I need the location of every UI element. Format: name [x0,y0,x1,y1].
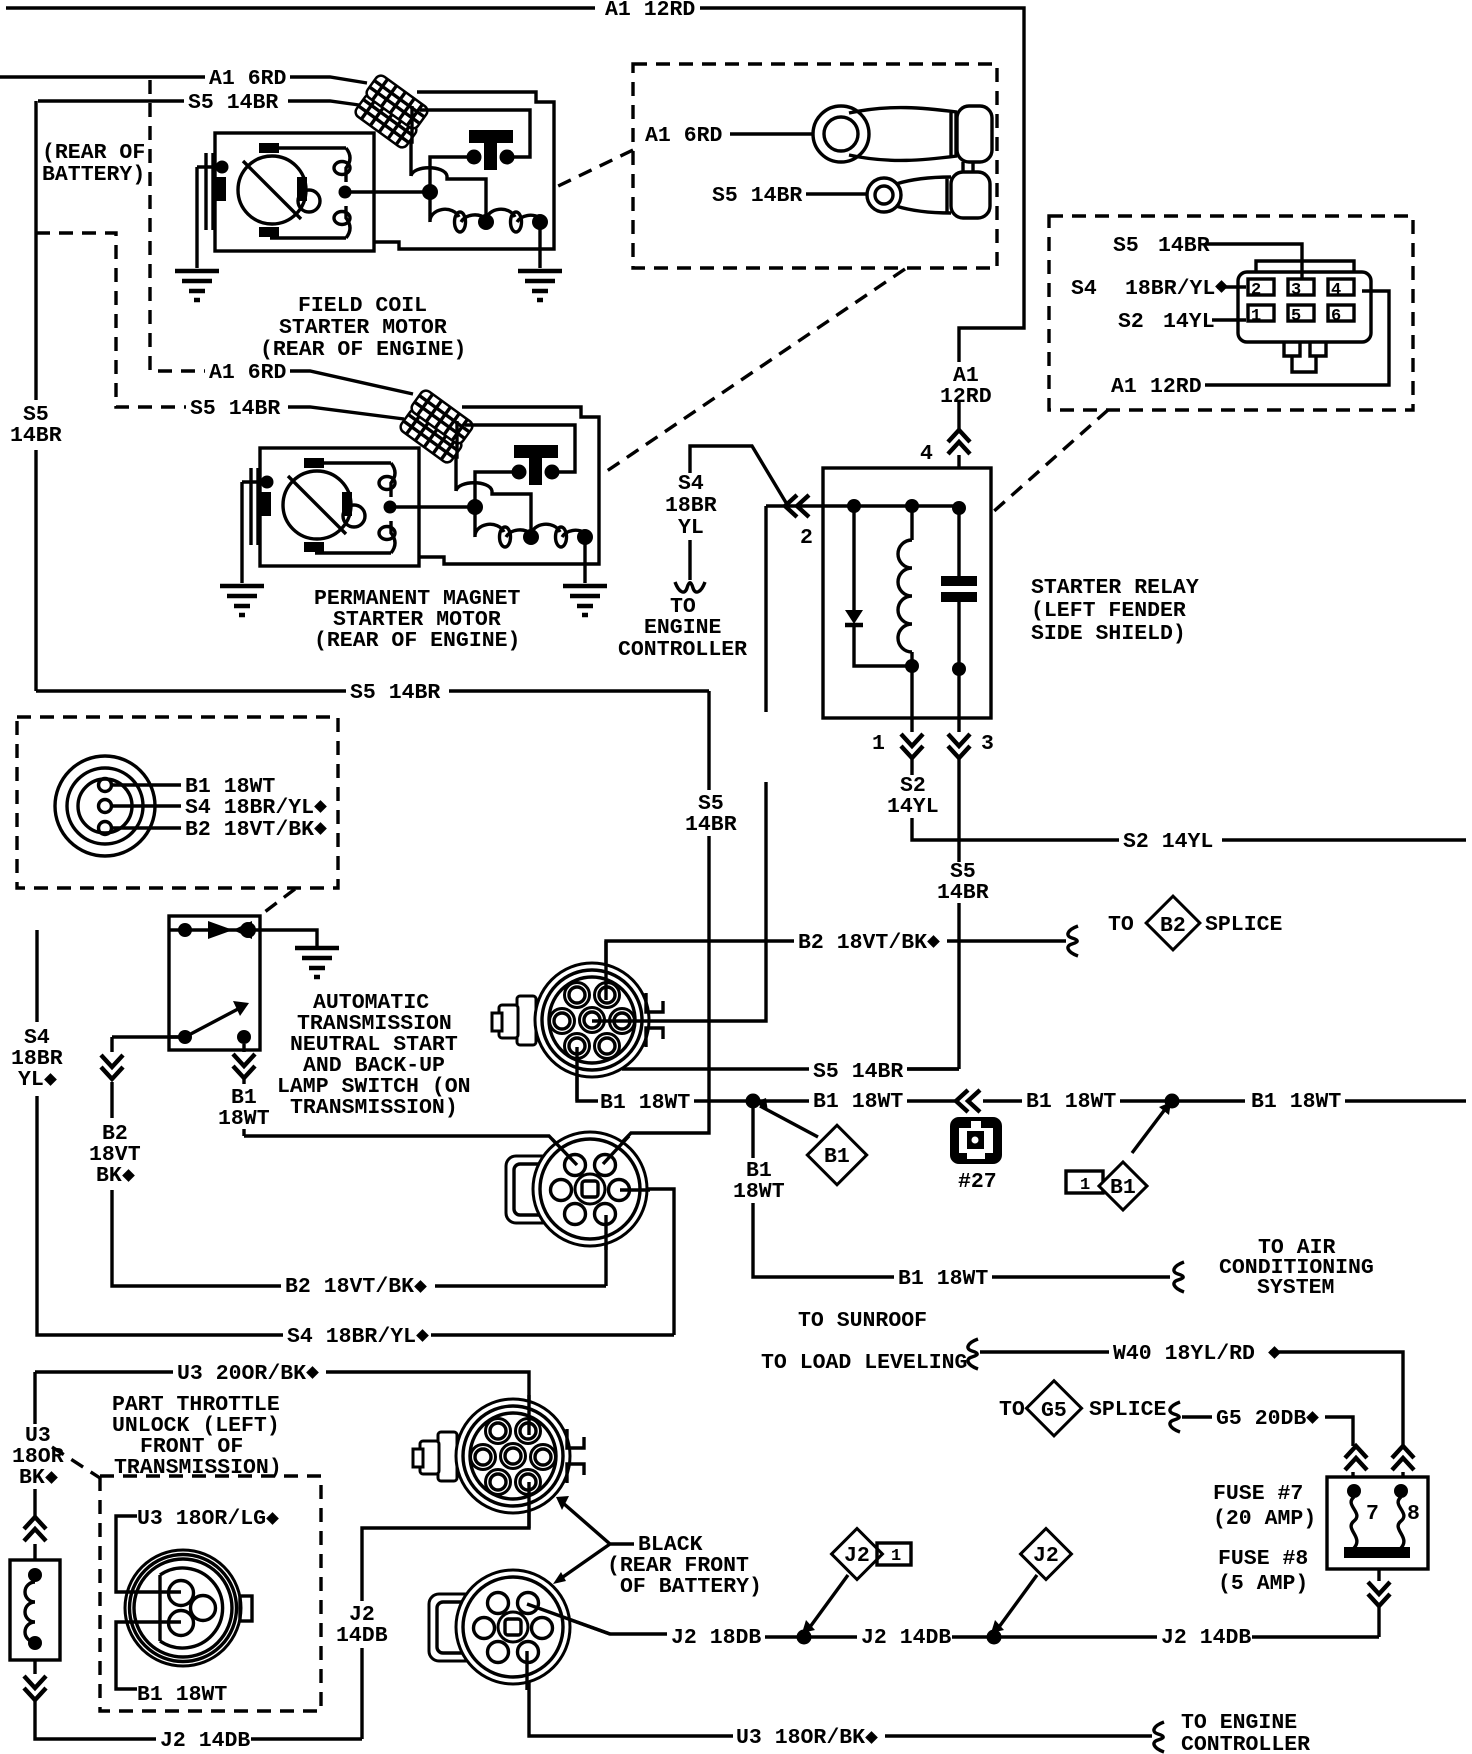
svg-text:7: 7 [1366,1502,1379,1526]
svg-text:J2 14DB: J2 14DB [160,1729,250,1753]
svg-text:G5: G5 [1041,1399,1067,1423]
svg-text:(REAR OF ENGINE): (REAR OF ENGINE) [314,629,520,653]
svg-text:2: 2 [1251,281,1261,300]
svg-text:A1 6RD: A1 6RD [209,361,287,385]
svg-text:S4 18BR/YL: S4 18BR/YL [185,796,314,820]
svg-text:A1 6RD: A1 6RD [209,67,287,91]
svg-text:S5 14BR: S5 14BR [188,91,278,115]
svg-text:B1 18WT: B1 18WT [1026,1090,1116,1114]
svg-text:14YL: 14YL [1163,310,1215,334]
svg-text:14BR: 14BR [10,424,62,448]
svg-text:BATTERY): BATTERY) [42,163,145,187]
svg-text:J2 14DB: J2 14DB [861,1626,951,1650]
svg-text:18BR: 18BR [665,494,717,518]
svg-text:BK: BK [19,1466,45,1490]
svg-text:S5 14BR: S5 14BR [813,1060,903,1084]
svg-text:B2 18VT/BK: B2 18VT/BK [285,1275,414,1299]
svg-text:SPLICE: SPLICE [1205,913,1283,937]
svg-text:YL: YL [18,1068,44,1092]
svg-text:TRANSMISSION): TRANSMISSION) [290,1096,458,1120]
svg-text:J2: J2 [844,1544,870,1568]
svg-text:B1 18WT: B1 18WT [137,1683,227,1707]
svg-text:18WT: 18WT [218,1107,270,1131]
svg-text:5: 5 [1291,307,1301,326]
svg-text:FUSE #8: FUSE #8 [1218,1547,1308,1571]
svg-text:8: 8 [1407,1502,1420,1526]
svg-text:G5 20DB: G5 20DB [1216,1407,1306,1431]
svg-text:J2: J2 [1033,1544,1059,1568]
svg-text:(REAR OF ENGINE): (REAR OF ENGINE) [260,338,466,362]
svg-text:TO ENGINE: TO ENGINE [1181,1711,1297,1735]
svg-text:3: 3 [981,732,994,756]
svg-text:1: 1 [1251,307,1261,326]
svg-text:12RD: 12RD [1150,375,1202,399]
svg-text:A1: A1 [1111,375,1137,399]
svg-text:U3 18OR/BK: U3 18OR/BK [736,1726,865,1750]
svg-text:(REAR OF: (REAR OF [42,141,145,165]
svg-text:S4 18BR/YL: S4 18BR/YL [287,1325,416,1349]
svg-text:12RD: 12RD [940,385,992,409]
svg-text:A1 12RD: A1 12RD [605,0,695,22]
svg-text:(LEFT FENDER: (LEFT FENDER [1031,599,1186,623]
svg-text:1: 1 [872,732,885,756]
svg-text:3: 3 [1291,281,1301,300]
svg-text:BK: BK [96,1164,122,1188]
svg-text:S5 14BR: S5 14BR [350,681,440,705]
svg-text:B1 18WT: B1 18WT [813,1090,903,1114]
svg-text:TO LOAD LEVELING: TO LOAD LEVELING [761,1351,967,1375]
svg-text:FUSE #7: FUSE #7 [1213,1482,1303,1506]
svg-text:STARTER RELAY: STARTER RELAY [1031,576,1199,600]
svg-text:B1 18WT: B1 18WT [898,1267,988,1291]
svg-text:2: 2 [800,526,813,550]
svg-text:FIELD COIL: FIELD COIL [298,294,427,318]
svg-text:S2: S2 [1118,310,1144,334]
svg-text:B1 18WT: B1 18WT [1251,1090,1341,1114]
svg-text:#27: #27 [958,1170,997,1194]
svg-text:SPLICE: SPLICE [1089,1398,1167,1422]
svg-text:SYSTEM: SYSTEM [1257,1276,1334,1300]
svg-text:B2: B2 [1160,914,1186,938]
svg-text:YL: YL [678,516,704,540]
svg-text:B2 18VT/BK: B2 18VT/BK [185,818,314,842]
svg-text:(5 AMP): (5 AMP) [1218,1572,1308,1596]
svg-text:S2 14YL: S2 14YL [1123,830,1213,854]
svg-text:A1 6RD: A1 6RD [645,124,723,148]
svg-text:CONTROLLER: CONTROLLER [1181,1733,1310,1754]
svg-text:STARTER MOTOR: STARTER MOTOR [279,316,447,340]
svg-text:TO: TO [1108,913,1134,937]
svg-text:TRANSMISSION): TRANSMISSION) [114,1456,282,1480]
svg-text:J2 14DB: J2 14DB [1161,1626,1251,1650]
svg-text:14BR: 14BR [937,881,989,905]
svg-text:ENGINE: ENGINE [644,616,722,640]
svg-text:S5 14BR: S5 14BR [712,184,802,208]
svg-text:TO SUNROOF: TO SUNROOF [798,1309,927,1333]
svg-text:S4: S4 [1071,277,1097,301]
svg-text:4: 4 [920,442,933,466]
svg-text:18WT: 18WT [733,1180,785,1204]
svg-text:U3 18OR/LG: U3 18OR/LG [137,1507,266,1531]
svg-text:SIDE SHIELD): SIDE SHIELD) [1031,622,1186,646]
svg-text:B1: B1 [824,1145,850,1169]
svg-text:B2 18VT/BK: B2 18VT/BK [798,931,927,955]
svg-text:B1: B1 [1110,1176,1136,1200]
svg-text:1: 1 [1080,1176,1090,1195]
svg-text:6: 6 [1331,307,1341,326]
svg-text:CONTROLLER: CONTROLLER [618,638,747,662]
svg-text:OF BATTERY): OF BATTERY) [620,1575,762,1599]
svg-text:18BR/YL: 18BR/YL [1125,277,1215,301]
svg-text:(20 AMP): (20 AMP) [1213,1507,1316,1531]
svg-text:14DB: 14DB [336,1624,388,1648]
svg-text:B1 18WT: B1 18WT [600,1091,690,1115]
svg-text:S5: S5 [1113,234,1139,258]
svg-text:14YL: 14YL [887,795,939,819]
svg-text:14BR: 14BR [1158,234,1210,258]
svg-text:4: 4 [1331,281,1341,300]
svg-text:1: 1 [891,1547,901,1566]
svg-text:TO: TO [999,1398,1025,1422]
svg-text:U3 20OR/BK: U3 20OR/BK [177,1362,306,1386]
svg-text:W40 18YL/RD: W40 18YL/RD [1113,1342,1255,1366]
svg-text:S4: S4 [678,472,704,496]
svg-text:S5 14BR: S5 14BR [190,397,280,421]
svg-text:14BR: 14BR [685,813,737,837]
svg-text:J2 18DB: J2 18DB [671,1626,761,1650]
